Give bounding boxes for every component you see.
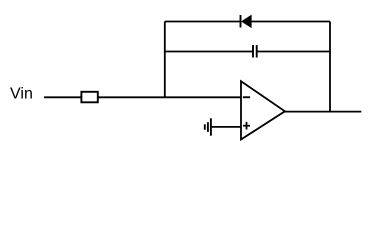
- ground: [205, 118, 211, 135]
- wire non-inverting input: [211, 126, 241, 128]
- svg-text:Vin: Vin: [10, 85, 33, 102]
- resistor R1: [81, 92, 97, 103]
- wire left feedback vertical: [164, 22, 166, 98]
- wire resistor to inverting input: [98, 96, 241, 98]
- wire capacitor loop right segment: [257, 51, 330, 53]
- diode D1: [241, 15, 252, 28]
- wire capacitor loop left segment: [165, 51, 253, 53]
- wire input left segment: [44, 96, 81, 98]
- wire top feedback right segment: [251, 21, 330, 23]
- wire right feedback vertical: [329, 22, 331, 112]
- capacitor C1: [253, 45, 257, 57]
- op-amp U1: [241, 81, 285, 139]
- wire output: [285, 111, 361, 113]
- wire top feedback left segment: [165, 21, 241, 23]
- label Vin: [10, 85, 33, 102]
